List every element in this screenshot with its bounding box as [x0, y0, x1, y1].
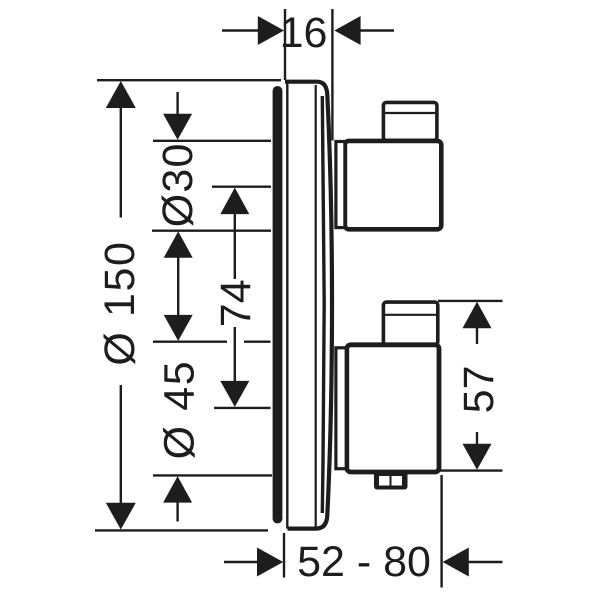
dim 16 leader right [361, 29, 395, 31]
dim 74 extension line top [212, 185, 271, 187]
bottom handle body [347, 345, 439, 472]
bottom handle grip tab [383, 302, 437, 345]
dim 16 extension line left [284, 9, 286, 80]
dim 52-80 leader left [224, 561, 258, 563]
dim 52-80 extension line left [283, 533, 285, 578]
top handle collar [336, 142, 345, 228]
dim 52-80 arrow right (points left) [443, 548, 469, 577]
dim 74 extension line bottom [214, 407, 271, 409]
escutcheon inner contour line [315, 85, 317, 527]
top handle grip tab [383, 102, 437, 140]
dim 30 stem top [176, 92, 178, 115]
dim 45 arrow down [164, 315, 193, 341]
dim 57 extension line bottom [436, 469, 503, 471]
dim 45 extension line top seg1 [153, 341, 227, 343]
dim 150 extension line bottom [95, 529, 268, 531]
dim 57 arrow down [463, 444, 492, 470]
bottom handle grip tab inner line [385, 314, 436, 316]
dim 74 stem upper [234, 213, 236, 279]
dim 30 extension line top [153, 140, 271, 142]
dim 52-80 leader right [469, 561, 503, 563]
clip window left [379, 476, 390, 486]
dim 150 arrow down [106, 503, 136, 530]
top handle grip tab inner line [385, 112, 435, 114]
escutcheon left edge [286, 81, 288, 529]
escutcheon front cover outline [285, 82, 332, 529]
dim 150 extension line top [97, 79, 281, 81]
dim 74 arrow up [220, 188, 249, 215]
dim 52-80 arrow left (points right) [257, 548, 283, 577]
dim 150 line upper [120, 106, 122, 218]
dim 16 arrow left (points right) [258, 16, 284, 45]
dim 16 arrow right (points left) [334, 16, 360, 45]
svg-text:74: 74 [212, 279, 260, 327]
dim 30 extension line bottom [152, 229, 271, 231]
dim 30 arrow up [164, 231, 193, 257]
dim 45 extension line top seg2 [244, 341, 271, 343]
bottom handle collar [336, 348, 346, 469]
svg-text:52 - 80: 52 - 80 [297, 538, 431, 586]
clip window right [392, 476, 403, 486]
dim 16 leader left [222, 29, 258, 31]
dim 150 line lower [120, 385, 122, 504]
dim 45 stem bottom [176, 502, 178, 522]
top handle body [345, 141, 441, 229]
dim 30/45 shared stem [177, 257, 179, 316]
dim 57 stem upper [476, 328, 478, 345]
svg-text:57: 57 [455, 365, 503, 413]
dim 30 arrow down [163, 114, 192, 140]
dim 52-80 extension line right [440, 475, 442, 588]
bottom handle clip [374, 471, 408, 490]
escutcheon back flange [273, 86, 283, 524]
dim 16 extension line right [331, 9, 333, 141]
dim 57 stem lower [476, 432, 478, 444]
dim 45 arrow up [163, 476, 192, 502]
dim 45 extension line bottom [153, 474, 272, 476]
svg-text:Ø30: Ø30 [154, 142, 202, 227]
svg-text:Ø 45: Ø 45 [155, 360, 203, 460]
svg-text:Ø 150: Ø 150 [96, 240, 144, 365]
dim 150 arrow up [106, 81, 136, 108]
dim 74 stem lower [234, 327, 236, 382]
dim 74 arrow down [220, 381, 249, 407]
dim 57 arrow up [463, 302, 492, 329]
escutcheon dome mid contour [322, 96, 324, 513]
dim 57 extension line top [438, 300, 503, 302]
svg-text:16: 16 [280, 9, 328, 57]
